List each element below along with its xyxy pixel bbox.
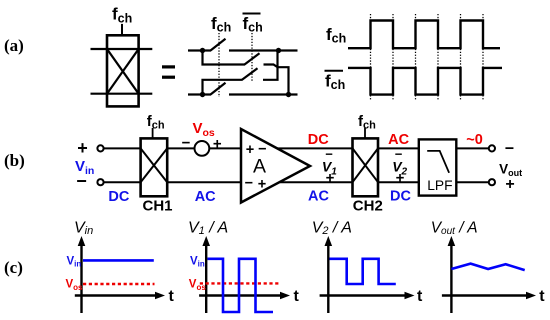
wire fch stub CH1 — [152, 128, 154, 138]
wire fch stub CH2 — [364, 128, 366, 138]
svg-text:CH1: CH1 — [143, 198, 173, 215]
op-amp A — [241, 129, 310, 203]
svg-text:+: + — [246, 142, 254, 158]
svg-text:+: + — [258, 176, 266, 192]
wire chopper bottom — [91, 93, 153, 95]
svg-text:V1 / A: V1 / A — [188, 220, 228, 238]
plot 4 blue ripple trace — [451, 264, 524, 271]
wire fch stub to chopper box — [121, 24, 123, 35]
wire amp to CH2 bottom — [280, 181, 353, 183]
terminal input top — [97, 145, 103, 151]
svg-text:−: − — [258, 141, 266, 157]
plot 1 horizontal axis — [75, 292, 165, 300]
svg-text:+: + — [396, 170, 405, 187]
svg-text:t: t — [169, 288, 175, 305]
svg-text:+: + — [505, 176, 514, 193]
svg-text:V2 / A: V2 / A — [312, 220, 352, 238]
plot 1 blue trace — [83, 259, 154, 262]
plot 2 vertical axis — [202, 236, 210, 313]
wire cross branch from top input — [203, 51, 246, 65]
dotted control line fch-bar — [251, 33, 253, 82]
wire CH1 to Vos — [167, 147, 194, 149]
switch S3 lever — [242, 68, 258, 80]
plot 1 red dashed trace — [83, 283, 155, 285]
wire cross branch from bottom input — [203, 80, 243, 95]
node bottom output — [286, 92, 291, 97]
svg-text:(c): (c) — [4, 258, 23, 277]
wire top input — [188, 49, 211, 51]
wire CH2 to LPF top — [378, 147, 419, 149]
V2 annotation — [392, 146, 407, 186]
svg-text:−: − — [182, 134, 191, 151]
svg-text:DC: DC — [390, 189, 411, 205]
dotted transition lines — [371, 14, 484, 101]
svg-text:(a): (a) — [4, 36, 24, 55]
wire LPF to output top — [456, 147, 489, 149]
wire input bottom — [104, 181, 141, 183]
svg-text:A: A — [253, 156, 266, 178]
wire bottom output — [229, 93, 298, 95]
svg-text:AC: AC — [195, 189, 216, 205]
chopper CH1 — [141, 138, 168, 196]
svg-text:AC: AC — [308, 189, 329, 205]
svg-text:~0: ~0 — [466, 132, 483, 148]
fch-bar clock waveform — [348, 68, 502, 95]
LPF response symbol — [427, 151, 449, 173]
terminal output bottom — [489, 179, 495, 185]
fch-bar clock label — [325, 71, 346, 92]
LPF box — [419, 139, 457, 195]
switch S4 lever — [211, 83, 226, 95]
svg-text:t: t — [417, 288, 423, 305]
svg-text:(b): (b) — [4, 151, 25, 170]
plot 2 red dashed trace — [200, 282, 280, 284]
svg-text:t: t — [294, 288, 300, 305]
wire input top — [104, 147, 141, 149]
fch clock waveform — [348, 21, 500, 49]
node top input — [200, 48, 205, 53]
plot 2 horizontal axis — [199, 292, 290, 300]
switch S1 lever — [211, 39, 226, 51]
svg-text:+: + — [326, 170, 335, 187]
node bottom input — [200, 92, 205, 97]
wire CH2 to LPF bottom — [378, 181, 419, 183]
wire S2 to bottom output — [264, 65, 289, 95]
svg-text:+: + — [213, 135, 222, 152]
wire CH1 to amp bottom — [167, 181, 241, 183]
plot 4 vertical axis — [448, 236, 456, 313]
svg-text:LPF: LPF — [427, 178, 452, 193]
chopper symbol box — [107, 35, 139, 106]
wire amp to CH2 top — [278, 147, 353, 149]
plot 3 horizontal axis — [320, 292, 415, 300]
wire LPF to output bottom — [456, 181, 489, 183]
svg-text:+: + — [77, 138, 88, 158]
plot 4 horizontal axis — [442, 292, 536, 300]
plot 2 blue square wave — [208, 259, 274, 312]
wire chopper top — [91, 48, 153, 50]
equals sign — [162, 67, 175, 77]
fch-bar label switch network — [243, 14, 263, 35]
svg-text:CH2: CH2 — [353, 198, 383, 215]
svg-text:DC: DC — [108, 189, 129, 205]
terminal input bottom — [97, 179, 103, 185]
svg-text:−: − — [245, 176, 253, 192]
dotted control line fch — [218, 33, 220, 97]
node top output — [276, 48, 281, 53]
plot 3 blue square wave — [330, 259, 396, 284]
plot 3 vertical axis — [325, 236, 333, 313]
svg-text:−: − — [505, 141, 514, 158]
plot 1 vertical axis — [78, 236, 86, 313]
Vos source circle — [195, 141, 210, 156]
svg-text:t: t — [539, 288, 545, 305]
wire bottom input — [188, 93, 211, 95]
chopper CH2 — [353, 138, 379, 196]
V1 annotation — [322, 146, 337, 186]
wire Vos to amp — [210, 147, 241, 149]
svg-text:Vout / A: Vout / A — [431, 220, 478, 238]
switch S2 lever — [245, 53, 260, 64]
wire top output — [229, 49, 298, 51]
terminal output top — [489, 145, 495, 151]
wire S3 to top output — [263, 51, 278, 80]
